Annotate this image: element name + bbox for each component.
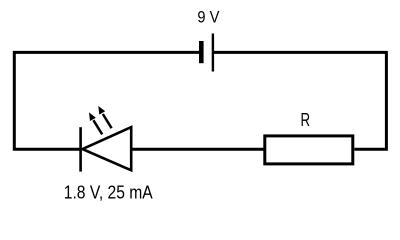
LED cathode bar xyxy=(79,127,82,171)
resistor reference label R xyxy=(301,110,311,130)
LED value label 1.8 V, 25 mA xyxy=(64,183,153,203)
LED triangle (anode) xyxy=(83,127,132,170)
wire from LED anode to resistor left lead xyxy=(131,148,265,151)
resistor R (box) xyxy=(265,136,353,164)
svg-text:9 V: 9 V xyxy=(197,8,220,27)
LED light emission arrow 2 (upper-right) xyxy=(98,106,111,128)
wire from battery positive plate right along top, down right side, to resistor right lead xyxy=(213,52,387,149)
wire from battery negative plate left along top, down left side, to LED cathode xyxy=(14,52,199,149)
svg-text:R: R xyxy=(301,110,311,130)
battery positive plate (long thin bar) xyxy=(212,34,214,72)
battery negative plate (short thick bar) xyxy=(199,41,204,63)
svg-text:1.8 V, 25 mA: 1.8 V, 25 mA xyxy=(64,183,153,203)
LED light emission arrow 1 (lower-left) xyxy=(89,112,102,134)
battery value label 9 V xyxy=(197,8,220,27)
